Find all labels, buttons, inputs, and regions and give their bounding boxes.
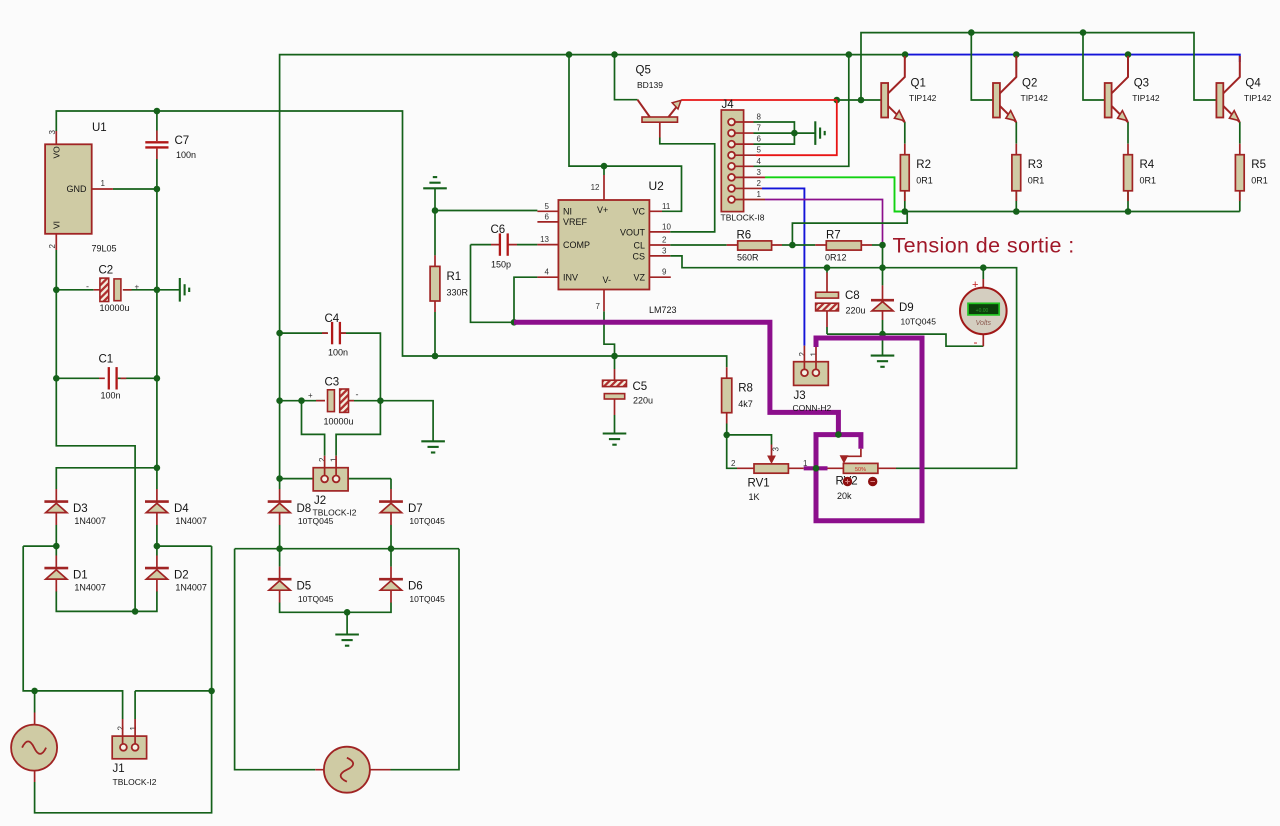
svg-text:D4: D4: [174, 503, 189, 515]
svg-text:R4: R4: [1140, 159, 1155, 171]
capacitor C5 (electrolytic): [603, 369, 627, 415]
svg-text:-: -: [86, 282, 89, 292]
diode D5: [268, 567, 292, 603]
svg-text:C8: C8: [845, 290, 860, 302]
leads R1: [434, 255, 436, 312]
svg-text:8: 8: [757, 113, 762, 122]
wire R7 right link: [872, 244, 883, 246]
wire C5 bottom to ground: [614, 415, 616, 434]
svg-text:0R1: 0R1: [1140, 176, 1157, 186]
svg-text:3: 3: [771, 447, 780, 452]
wire J4 pin8/pin6 tie: [754, 122, 795, 144]
junction R4 bottom: [1125, 208, 1132, 215]
wire C2 left lead: [56, 289, 93, 291]
junction C7 top on y111 rail: [154, 108, 161, 115]
svg-text:C4: C4: [325, 313, 340, 325]
wire ground return to voltmeter -: [827, 334, 983, 346]
junction top rail on base wire: [858, 97, 865, 104]
svg-text:50%: 50%: [855, 467, 866, 473]
ground (C5): [603, 434, 627, 445]
wire C8 top link: [826, 268, 828, 273]
junction AC2 rail / J1 pin1: [208, 688, 215, 695]
diode D8: [268, 489, 292, 525]
capacitor C8 (electrolytic): [816, 273, 839, 328]
svg-text:LM723: LM723: [649, 305, 677, 315]
svg-text:R3: R3: [1028, 159, 1043, 171]
wire blue collector bus: [905, 55, 1240, 62]
transistor Q2: [993, 56, 1016, 122]
resistor R1: [430, 266, 440, 301]
svg-text:7: 7: [596, 302, 601, 311]
svg-text:5: 5: [757, 146, 762, 155]
wire V+ branch to U2 V+ and VC: [569, 55, 682, 212]
junction R3 bottom: [1013, 208, 1020, 215]
svg-text:D6: D6: [408, 580, 423, 592]
capacitor C6: [500, 233, 508, 255]
wire C4 right down to C3 right: [350, 333, 380, 401]
junction Q1 collector / blue bus start: [902, 51, 909, 58]
wire bridge2 ground rail: [280, 603, 391, 613]
AC source (transformer secondary 2): [315, 747, 390, 793]
svg-text:Q1: Q1: [911, 78, 926, 90]
svg-text:D7: D7: [408, 503, 423, 515]
wire Q1 collector stub: [904, 55, 906, 59]
capacitor C4: [332, 322, 340, 344]
potentiometer RV1: [737, 445, 804, 474]
leads J3: [804, 346, 816, 370]
svg-text:2: 2: [117, 726, 126, 731]
wire CS / output rail / loop to RV2 right: [670, 256, 1016, 468]
wire emitter to resistor: [1127, 122, 1129, 144]
svg-text:6: 6: [757, 135, 762, 144]
connector J1: [112, 736, 146, 759]
svg-text:VC: VC: [632, 207, 645, 217]
wire U1 pin2 column to bridge minus: [56, 250, 135, 611]
svg-text:10TQ045: 10TQ045: [901, 317, 937, 327]
wire C6 left loop down: [471, 245, 515, 323]
svg-text:CS: CS: [632, 251, 645, 261]
svg-text:10TQ045: 10TQ045: [409, 594, 445, 604]
wire bridge1 minus rail: [56, 591, 157, 611]
transistor Q1: [881, 56, 905, 122]
svg-text:-: -: [974, 335, 978, 349]
svg-text:0R1: 0R1: [916, 176, 933, 186]
svg-text:10TQ045: 10TQ045: [298, 594, 334, 604]
junction J4 pin4 on V+ wire: [846, 51, 853, 58]
junction R1 bottom on V- rail: [432, 353, 439, 360]
junction R8 / RV1: [723, 432, 730, 439]
svg-text:220u: 220u: [633, 396, 653, 406]
svg-text:1N4007: 1N4007: [175, 516, 207, 526]
wire R6 right link: [782, 244, 792, 246]
svg-text:Q2: Q2: [1022, 78, 1037, 90]
svg-text:3: 3: [662, 246, 667, 255]
wire ground stem D9: [882, 334, 884, 356]
wire blue J4 pin2 to J3 pin2: [762, 188, 804, 345]
wire U1 pin3 / y111 rail / V- rail to R8: [56, 111, 726, 367]
wire C2 right lead: [124, 289, 157, 291]
wire to RV1 pin2: [727, 435, 737, 468]
svg-text:D2: D2: [174, 569, 189, 581]
svg-text:Volts: Volts: [976, 320, 992, 327]
wire + rail to D7 cathode: [280, 478, 391, 480]
wire resistor to rail: [1015, 191, 1017, 212]
wire emitter to resistor: [1239, 122, 1241, 144]
capacitor C7: [145, 131, 168, 160]
svg-text:TIP142: TIP142: [1244, 93, 1272, 103]
wire C1 left lead: [56, 377, 99, 379]
resistor R4: [1124, 155, 1133, 191]
wire D4 cathode lead: [156, 468, 158, 489]
leads C6: [491, 244, 517, 246]
leads R5: [1239, 144, 1241, 201]
junction Q3 base drop: [1080, 29, 1087, 36]
wire C6 right to COMP: [517, 244, 537, 246]
junction voltmeter +: [980, 264, 987, 271]
connector J3: [794, 362, 829, 386]
svg-text:V-: V-: [603, 275, 612, 285]
svg-text:INV: INV: [563, 273, 578, 283]
wire J4 pin4 to V+ wire: [754, 55, 849, 167]
svg-text:+: +: [135, 283, 140, 292]
wire thick purple INV sense run: [514, 322, 838, 434]
svg-text:13: 13: [540, 235, 549, 244]
junction D7/D6: [388, 545, 395, 552]
voltmeter: [960, 279, 1007, 346]
svg-text:Q3: Q3: [1134, 78, 1149, 90]
junction V+ drop: [566, 51, 573, 58]
wire J4 pin7: [754, 132, 795, 134]
wire ground stem bridge2: [346, 612, 348, 634]
leads C4: [280, 332, 350, 334]
svg-text:U1: U1: [92, 122, 107, 134]
svg-text:R5: R5: [1251, 159, 1266, 171]
junction C8 top: [824, 264, 831, 271]
adjust buttons RV2: [843, 477, 852, 486]
svg-text:1: 1: [101, 179, 106, 188]
wire AC left down to source 2: [235, 549, 316, 770]
svg-text:1N4007: 1N4007: [74, 516, 106, 526]
junction AC source top: [31, 688, 38, 695]
junction minus rail / U1 column: [132, 608, 139, 615]
svg-text:150p: 150p: [491, 260, 511, 270]
svg-text:11: 11: [662, 202, 671, 211]
wire to RV1 wiper: [727, 435, 772, 445]
wire V- pin to rail: [604, 311, 615, 356]
leads R2: [904, 144, 906, 201]
svg-text:CONN-H2: CONN-H2: [793, 403, 832, 413]
wire red J4 pin5: [756, 100, 837, 155]
svg-text:R7: R7: [826, 230, 841, 242]
wire D7 cathode lead: [390, 479, 392, 489]
svg-text:100n: 100n: [176, 150, 196, 160]
resistor R8: [722, 378, 732, 413]
ground (C3): [421, 441, 445, 452]
wire purple RV1 pin1 to RV2 left: [804, 466, 828, 470]
svg-text:1: 1: [810, 352, 819, 357]
wire resistor to rail: [1239, 191, 1241, 212]
leads J4: [735, 122, 765, 200]
svg-text:79L05: 79L05: [92, 244, 117, 254]
svg-text:NI: NI: [563, 207, 572, 217]
wire Q5 base down to VOUT: [660, 138, 715, 232]
svg-text:R1: R1: [447, 271, 462, 283]
diode D3: [44, 489, 68, 525]
resistor R5: [1235, 155, 1244, 191]
wire AC2 rail down and source bottom: [35, 546, 212, 813]
svg-text:RV1: RV1: [748, 478, 770, 490]
junction C4 left: [276, 330, 283, 337]
svg-text:6: 6: [545, 212, 550, 221]
svg-text:2: 2: [757, 179, 762, 188]
svg-text:C1: C1: [99, 354, 114, 366]
wire Q2 collector stub: [1015, 55, 1017, 59]
potentiometer RV2: [828, 449, 897, 474]
svg-text:C5: C5: [633, 381, 648, 393]
wire C5 top lead: [614, 356, 616, 369]
wire D7 anode to D6 cathode: [390, 525, 392, 567]
wire D9 anode link: [882, 320, 884, 334]
wire AC1 left stub: [23, 545, 56, 547]
junction R6/R7 divider: [789, 242, 796, 249]
junction U1 gnd / C7 column: [154, 186, 161, 193]
junction D9 anode / ground: [879, 331, 886, 338]
svg-text:1: 1: [803, 459, 808, 468]
wire AC2 right stub: [157, 545, 212, 547]
svg-text:2: 2: [318, 457, 327, 462]
svg-text:2: 2: [662, 236, 667, 245]
svg-text:GND: GND: [67, 184, 88, 194]
junction C3 left: [276, 397, 283, 404]
junction Q3 collector: [1125, 51, 1132, 58]
svg-text:10000u: 10000u: [324, 417, 354, 427]
svg-text:10000u: 10000u: [100, 303, 130, 313]
junction R7 right / purple / output drop: [879, 242, 886, 249]
junction C1 left: [53, 375, 60, 382]
svg-text:12: 12: [591, 183, 600, 192]
leads R4: [1127, 144, 1129, 201]
svg-text:V+: V+: [597, 205, 608, 215]
junction common rail / D4 column: [154, 465, 161, 472]
junction purple loop / RV1-RV2 wire: [813, 465, 820, 472]
wire bright green J4 pin3 to emitter rail: [765, 177, 905, 211]
wire raw+ rail up and V+ top wire: [280, 55, 906, 479]
connector J4: [721, 110, 743, 212]
leads J1: [123, 719, 136, 744]
junction INV / C6 / purple sense: [511, 319, 518, 326]
svg-text:3: 3: [757, 168, 762, 177]
leads C1: [99, 377, 126, 379]
junction D8/D5: [276, 545, 283, 552]
regulator U1 79L05: [45, 131, 113, 250]
wire C3- to J2 pin1: [336, 401, 380, 456]
svg-text:1: 1: [757, 190, 762, 199]
svg-text:1N4007: 1N4007: [175, 583, 207, 593]
wire CL to R6: [670, 244, 727, 246]
svg-text:VO: VO: [52, 146, 62, 159]
svg-text:Q4: Q4: [1245, 78, 1261, 90]
wire emitter to resistor: [1015, 122, 1017, 144]
wire Q5 collector: [615, 55, 638, 100]
diode D7: [379, 489, 403, 525]
ground (bridge 2): [335, 635, 359, 646]
wire R8 bottom: [726, 424, 728, 435]
svg-text:VREF: VREF: [563, 217, 588, 227]
svg-text:D5: D5: [297, 580, 312, 592]
svg-text:VI: VI: [52, 221, 62, 229]
diode D6: [379, 567, 403, 603]
svg-text:R2: R2: [916, 159, 931, 171]
wire emitter rail: [905, 211, 1240, 213]
svg-text:TBLOCK-I2: TBLOCK-I2: [113, 777, 157, 787]
svg-text:Tension de sortie :: Tension de sortie :: [893, 234, 1075, 258]
wire AC right down to source 2: [391, 549, 460, 770]
diode D2: [145, 556, 169, 592]
op-amp/regulator U2 LM723: [537, 175, 670, 311]
wire red Q5 emitter to J4 pin5 node: [682, 99, 837, 101]
junction C2 left: [53, 287, 60, 294]
svg-text:COMP: COMP: [563, 240, 590, 250]
svg-text:TIP142: TIP142: [1132, 93, 1160, 103]
wire thick purple loop J3 pin1 / RV2 wiper: [816, 338, 922, 521]
wire AC rail bridge2: [235, 548, 459, 550]
svg-text:0R12: 0R12: [825, 253, 847, 263]
svg-text:VOUT: VOUT: [620, 227, 646, 237]
wire C7 bottom to common column: [156, 159, 158, 468]
AC source (transformer secondary 1): [11, 713, 57, 783]
svg-text:C2: C2: [99, 265, 114, 277]
svg-text:+: +: [972, 279, 978, 291]
wire C1 right lead: [118, 377, 157, 379]
junction V+ pin stub: [601, 163, 608, 170]
svg-text:1: 1: [330, 457, 339, 462]
wire V+ pin link: [603, 166, 605, 175]
svg-text:20k: 20k: [837, 491, 852, 501]
wire base-drive top rail to Q4: [861, 33, 1216, 100]
connector J2: [313, 468, 348, 491]
svg-text:TIP142: TIP142: [1021, 93, 1049, 103]
svg-text:-: -: [356, 390, 359, 400]
wire common column to ground symbol: [157, 289, 180, 291]
junction C2 right: [154, 287, 161, 294]
wire AC1 down to J1 pin2: [23, 546, 122, 719]
junction C3- / C4 / ground: [377, 397, 384, 404]
svg-text:J2: J2: [314, 495, 326, 507]
resistor R2: [900, 155, 909, 191]
svg-text:10TQ045: 10TQ045: [298, 516, 334, 526]
svg-text:0R1: 0R1: [1251, 176, 1268, 186]
svg-text:R6: R6: [737, 230, 752, 242]
transistor Q4: [1216, 56, 1239, 122]
junction + rail / D8: [276, 475, 283, 482]
junction D9 top / R7 drop: [879, 264, 886, 271]
capacitor C2 (electrolytic): [100, 278, 121, 301]
wire Q3 collector stub: [1127, 55, 1129, 59]
svg-text:5: 5: [545, 202, 550, 211]
svg-text:D8: D8: [297, 503, 312, 515]
junction AC node left: [53, 543, 60, 550]
leads C2: [94, 289, 132, 291]
junction purple sense / wiper: [835, 431, 842, 438]
svg-text:10: 10: [662, 222, 671, 231]
wire divider jog to emitter rail: [792, 212, 907, 246]
junction Q2 base drop: [968, 29, 975, 36]
svg-text:D3: D3: [73, 503, 88, 515]
svg-text:J3: J3: [794, 390, 806, 402]
wire C7 top lead: [156, 111, 158, 131]
junction J4 gnd tie: [791, 130, 798, 137]
svg-text:Q5: Q5: [636, 65, 651, 77]
junction Q2 collector: [1013, 51, 1020, 58]
wire D8 cathode lead: [279, 479, 281, 489]
svg-text:C6: C6: [491, 224, 506, 236]
svg-text:BD139: BD139: [637, 80, 663, 90]
svg-text:100n: 100n: [101, 391, 121, 401]
diode D1: [44, 556, 68, 592]
wire base drop to Q3: [1083, 33, 1105, 100]
wire resistor to rail: [1127, 191, 1129, 212]
diode D4: [145, 489, 169, 525]
svg-text:220u: 220u: [846, 306, 866, 316]
leads R3: [1015, 144, 1017, 201]
junction R2 bottom: [902, 208, 909, 215]
svg-text:CL: CL: [633, 240, 645, 250]
svg-text:330R: 330R: [447, 287, 469, 297]
svg-text:10TQ045: 10TQ045: [409, 516, 445, 526]
svg-text:100n: 100n: [328, 348, 348, 358]
wire bridge common rail to D3: [56, 468, 157, 489]
wire D8 anode to D5 cathode: [279, 525, 281, 567]
svg-text:J4: J4: [722, 99, 735, 111]
wire C3- to ground: [380, 401, 433, 442]
svg-text:0R1: 0R1: [1028, 176, 1045, 186]
ground (C2 / common): [180, 278, 189, 302]
wire R1 top / gnd stem: [434, 188, 436, 255]
svg-text:3: 3: [48, 130, 57, 135]
wire R7 node down to output rail: [882, 245, 884, 268]
junction J4 pin5 on base wire: [834, 97, 841, 104]
resistor R6: [727, 244, 782, 246]
resistor R7: [815, 244, 872, 246]
resistor R3: [1012, 155, 1021, 191]
ground (J4 pins 8-6): [815, 121, 824, 145]
junction V- / C5 on rail: [611, 353, 618, 360]
svg-text:2: 2: [48, 244, 57, 249]
wire C3+ to J2 pin2: [302, 401, 325, 456]
svg-text:1: 1: [129, 726, 138, 731]
svg-text:U2: U2: [649, 179, 665, 193]
wire J1 pin1 branch: [135, 690, 212, 692]
wire resistor to rail: [904, 191, 906, 212]
svg-text:+0.00: +0.00: [976, 308, 989, 314]
wire base wire to Q1: [837, 99, 881, 101]
wire base drop to Q2: [971, 33, 993, 100]
svg-text:J1: J1: [113, 763, 125, 775]
leads R8: [726, 367, 728, 423]
wire to AC source top: [34, 691, 36, 713]
wire D4 anode to D2 cathode: [156, 525, 158, 556]
wire D9 cathode lead: [882, 268, 884, 286]
svg-text:C3: C3: [325, 377, 340, 389]
wire R6-R7 link: [792, 244, 815, 246]
wire emitter to resistor: [904, 122, 906, 144]
junction C3+ to J2 pin2: [298, 397, 305, 404]
svg-text:2: 2: [731, 459, 736, 468]
junction AC node right: [154, 543, 161, 550]
junction C1 right: [154, 375, 161, 382]
diode D9 (schottky): [871, 285, 894, 320]
svg-text:1N4007: 1N4007: [74, 583, 106, 593]
